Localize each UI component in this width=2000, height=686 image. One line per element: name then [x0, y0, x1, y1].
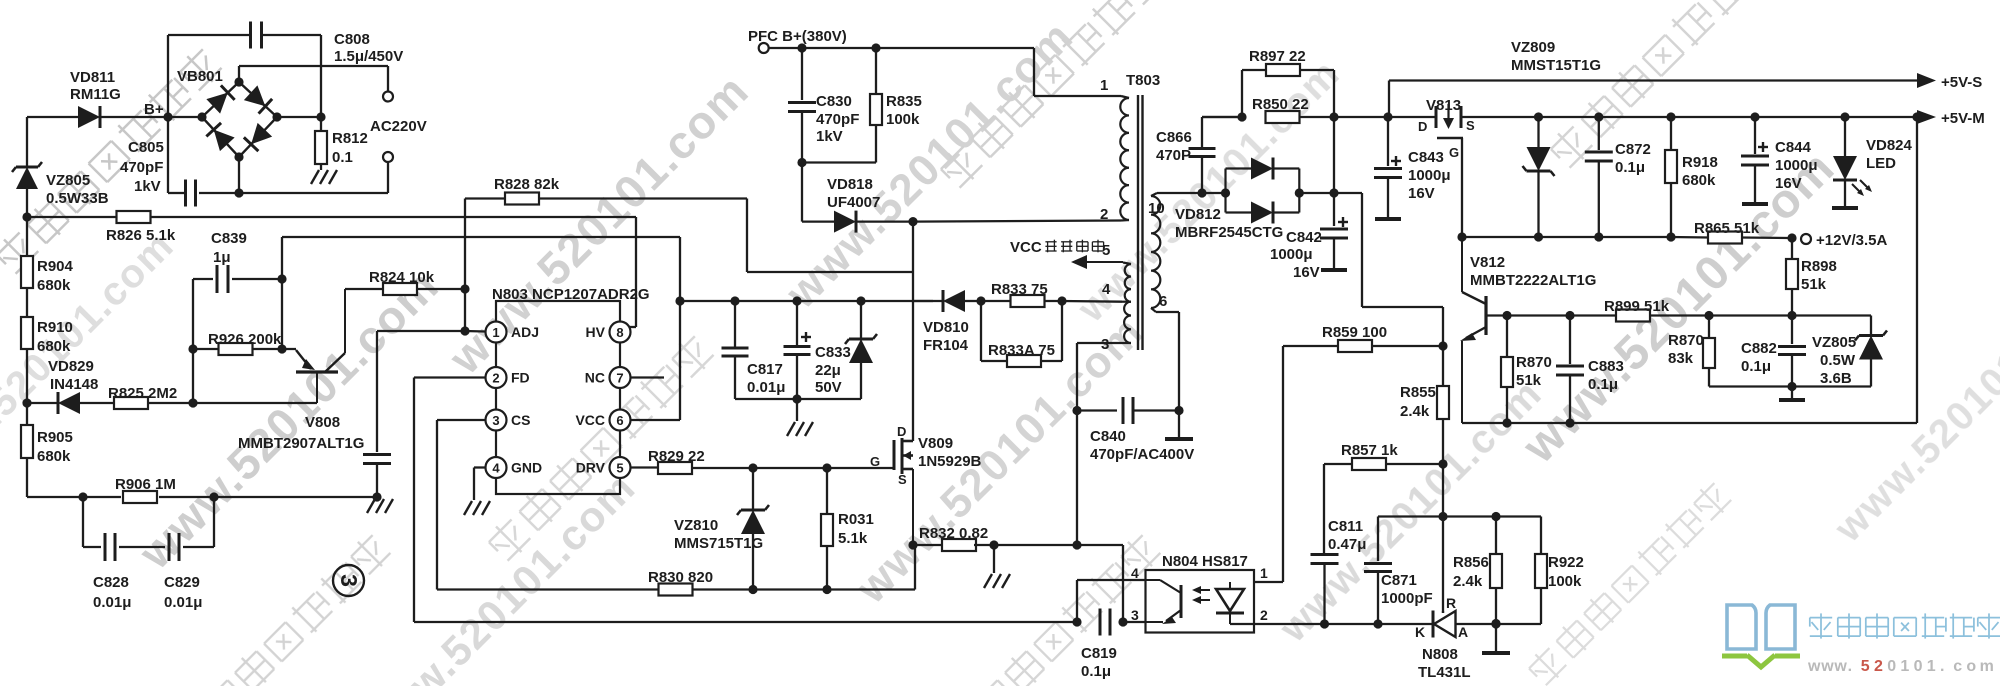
wire +5V-S riser — [1388, 81, 1390, 118]
T803 aux winding 4-3 — [1122, 302, 1131, 343]
svg-text:1: 1 — [1260, 565, 1268, 581]
wire tl431 R riser — [1442, 517, 1444, 614]
svg-text:0.01μ: 0.01μ — [164, 594, 202, 611]
opto pin3 label — [1131, 607, 1139, 623]
node R833 right — [1057, 296, 1066, 305]
label R898 — [1801, 258, 1837, 293]
svg-text:FD: FD — [511, 370, 530, 386]
svg-text:R905: R905 — [37, 429, 73, 446]
opto LED — [1216, 582, 1244, 624]
svg-text:1μ: 1μ — [213, 249, 231, 266]
resistor R830 — [437, 545, 915, 596]
resistor R831 — [821, 468, 833, 590]
pin 7 NC of N803 — [585, 367, 631, 388]
opto pin1 label — [1260, 565, 1268, 581]
terminal AC220V upper — [383, 92, 393, 102]
capacitor C882 — [1778, 316, 1806, 387]
label R905 — [37, 429, 73, 465]
bridge diode VB801-3 — [244, 123, 272, 151]
svg-text:R899 51k: R899 51k — [1604, 298, 1670, 315]
node zener top — [856, 296, 865, 305]
label C871 — [1381, 572, 1433, 607]
svg-text:MBRF2545CTG: MBRF2545CTG — [1175, 224, 1283, 241]
resistor R832 — [913, 539, 994, 551]
wire DRV stub — [631, 466, 659, 468]
arrow +5V-S — [1917, 73, 1982, 91]
svg-text:N803 NCP1207ADR2G: N803 NCP1207ADR2G — [492, 286, 650, 303]
label VZ805 right — [1812, 334, 1856, 387]
pin 5 DRV of N803 — [576, 457, 631, 478]
svg-text:C840: C840 — [1090, 428, 1126, 445]
svg-text:1kV: 1kV — [816, 128, 843, 145]
resistor R922 — [1496, 517, 1547, 625]
zener VZ805 left — [12, 162, 42, 217]
label VD811 — [70, 69, 121, 103]
svg-text:R857 1k: R857 1k — [1341, 442, 1398, 459]
label VD810 — [923, 319, 969, 354]
label C808 — [334, 31, 403, 65]
svg-text:3.6B: 3.6B — [1820, 370, 1852, 387]
capacitor C872 — [1585, 117, 1613, 237]
bridge diode VB801-4 — [206, 123, 234, 151]
opto pin4 label — [1131, 565, 1139, 581]
wire +5V-S rail — [1389, 79, 1920, 81]
capacitor C844 — [1741, 117, 1769, 203]
svg-text:3: 3 — [1131, 607, 1139, 623]
svg-text:N808: N808 — [1422, 646, 1458, 663]
node R826 tap — [22, 212, 31, 221]
wire GND pin4 — [474, 468, 486, 501]
svg-text:VD824: VD824 — [1866, 137, 1913, 154]
svg-text:PFC B+(380V): PFC B+(380V) — [748, 28, 847, 45]
T803 aux winding 5-4 — [1123, 263, 1131, 302]
wire R825 to base — [316, 402, 318, 404]
svg-text:0.5W: 0.5W — [1820, 352, 1856, 369]
wire AC2 bottom — [199, 157, 388, 198]
svg-text:C817: C817 — [747, 361, 783, 378]
svg-text:A: A — [1458, 624, 1468, 640]
capacitor C866 — [1189, 117, 1243, 193]
label C842 — [1270, 229, 1322, 281]
label C843 — [1408, 149, 1451, 202]
resistor R906 — [123, 491, 377, 503]
svg-text:680k: 680k — [37, 277, 71, 294]
node R856 bottom — [1491, 619, 1500, 628]
ground bar C844 — [1742, 202, 1768, 206]
wire pin3 entry — [1123, 621, 1146, 623]
capacitor C883 — [1556, 316, 1584, 424]
node R898 top — [1787, 233, 1796, 242]
bridge corner nodes — [197, 77, 281, 161]
node R824 right — [460, 284, 469, 293]
svg-text:470pF: 470pF — [120, 159, 163, 176]
label C883 — [1588, 358, 1624, 393]
svg-text:5.1k: 5.1k — [838, 530, 868, 547]
label C811 — [1328, 518, 1366, 553]
svg-text:3: 3 — [336, 574, 362, 587]
label V813 G — [1449, 145, 1459, 160]
node C828 riser — [78, 492, 87, 501]
svg-text:7: 7 — [616, 371, 623, 386]
wire NC stub — [631, 376, 665, 378]
zener VZ809 — [1523, 117, 1555, 237]
resistor R857 — [1324, 458, 1443, 553]
resistor R835 — [802, 48, 882, 163]
label C844 — [1775, 139, 1818, 192]
svg-text:1N5929B: 1N5929B — [918, 453, 982, 470]
diode VD812 lower — [1226, 202, 1300, 224]
bridge rectifier VB801 frame — [202, 82, 277, 157]
svg-text:3: 3 — [492, 413, 499, 428]
wire R904-R910 — [26, 288, 28, 317]
svg-text:50V: 50V — [815, 379, 842, 396]
label R856 — [1453, 554, 1489, 590]
wire mid rail — [1443, 515, 1541, 517]
label V809 G — [870, 454, 880, 469]
node C882 bottom — [1787, 382, 1796, 391]
label PFC B+ — [748, 28, 847, 45]
svg-text:C866: C866 — [1156, 129, 1192, 146]
svg-text:8: 8 — [616, 325, 623, 340]
resistor R898 — [1786, 238, 1798, 316]
wire HV riser — [629, 217, 636, 327]
svg-text:C811: C811 — [1328, 518, 1363, 535]
node C840 right — [1174, 406, 1183, 415]
label R830 — [648, 569, 713, 586]
wire C808 top loop — [168, 35, 321, 117]
svg-text:0.01μ: 0.01μ — [93, 594, 131, 611]
ground under R812 — [311, 170, 337, 184]
optocoupler N804 body — [1146, 570, 1255, 633]
node gate rail left — [1457, 232, 1466, 241]
node R835 top — [871, 43, 880, 52]
svg-text:2: 2 — [492, 371, 499, 386]
IC N803 body — [496, 301, 620, 494]
label R922 — [1548, 554, 1584, 590]
svg-text:VZ805: VZ805 — [46, 172, 90, 189]
resistor R856 — [1490, 517, 1502, 624]
svg-text:1: 1 — [492, 325, 499, 340]
svg-text:5: 5 — [616, 461, 623, 476]
label VZ810 — [674, 517, 763, 552]
resistor R824 — [345, 283, 465, 295]
label R833A — [988, 342, 1055, 359]
svg-text:R870: R870 — [1516, 354, 1552, 371]
wire FD pin2 — [414, 378, 486, 623]
svg-text:C829: C829 — [164, 574, 200, 591]
label B+ — [144, 101, 164, 118]
svg-text:C844: C844 — [1775, 139, 1812, 156]
rectifier VD812 bracket — [1226, 169, 1300, 213]
svg-text:1kV: 1kV — [134, 178, 161, 195]
svg-text:0.5W33B: 0.5W33B — [46, 190, 109, 207]
label R829 — [648, 448, 705, 465]
svg-text:1000μ: 1000μ — [1270, 246, 1313, 263]
label R897 — [1249, 48, 1306, 65]
node R831 top — [822, 463, 831, 472]
wire zener loop bottom — [1709, 385, 1871, 387]
svg-text:4: 4 — [1102, 281, 1111, 298]
capacitor ADJ filter — [363, 331, 391, 497]
svg-text:VD829: VD829 — [48, 358, 94, 375]
label R870b — [1516, 354, 1552, 389]
zener VZ810 — [737, 468, 769, 590]
label R812 — [332, 130, 368, 166]
capacitor C808 — [251, 22, 262, 49]
node R856 top — [1491, 512, 1500, 521]
svg-text:51k: 51k — [1801, 276, 1827, 293]
svg-text:MMS715T1G: MMS715T1G — [674, 535, 763, 552]
svg-text:+12V/3.5A: +12V/3.5A — [1816, 232, 1887, 249]
ground bar C882 — [1779, 387, 1805, 401]
wire C871 top — [1378, 515, 1443, 517]
label pin10 — [1148, 200, 1165, 217]
svg-text:D: D — [1418, 119, 1427, 134]
wire to T803 pin2 — [913, 221, 1121, 222]
label R835 — [886, 93, 922, 128]
node VD818 out — [908, 217, 917, 226]
node mid rail — [1438, 512, 1447, 521]
wire 5VM right drop — [1916, 117, 1918, 423]
svg-text:1000pF: 1000pF — [1381, 590, 1433, 607]
svg-text:S: S — [1466, 118, 1475, 133]
node R850 right — [1329, 112, 1338, 121]
svg-text:MMBT2907ALT1G: MMBT2907ALT1G — [238, 435, 364, 452]
terminal PFC B+ — [759, 43, 769, 53]
label R870c — [1668, 332, 1704, 367]
svg-text:1.5μ/450V: 1.5μ/450V — [334, 48, 403, 65]
svg-text:V808: V808 — [305, 414, 340, 431]
svg-text:R918: R918 — [1682, 154, 1718, 171]
label R831 — [838, 511, 874, 547]
label R832 — [919, 525, 988, 542]
svg-text:R825 2M2: R825 2M2 — [108, 385, 177, 402]
node 5VM corner — [1912, 112, 1921, 121]
label VD812 — [1175, 206, 1283, 241]
ground under pin4 — [464, 501, 490, 515]
label R904 — [37, 258, 74, 294]
transistor V812 — [1460, 237, 1486, 423]
label C805 — [120, 139, 164, 195]
svg-text:FR104: FR104 — [923, 337, 969, 354]
wire 5VM rail — [1461, 116, 1920, 118]
ground under ADJ cap — [367, 499, 393, 513]
label N803 — [492, 286, 650, 303]
svg-text:S: S — [898, 472, 907, 487]
label R857 — [1341, 442, 1398, 459]
T803 secondary winding — [1151, 193, 1160, 312]
svg-text:IN4148: IN4148 — [50, 376, 98, 393]
svg-text:.: . — [1940, 658, 1944, 675]
resistor R833A loop — [981, 301, 1062, 367]
label pin2 — [1100, 206, 1108, 223]
node R870c top — [1704, 311, 1713, 320]
svg-text:R829 22: R829 22 — [648, 448, 705, 465]
svg-text:10: 10 — [1148, 200, 1165, 217]
node C844 top — [1750, 112, 1759, 121]
svg-text:1000μ: 1000μ — [1775, 157, 1818, 174]
svg-text:R832 0.82: R832 0.82 — [919, 525, 988, 542]
node R855 top — [1438, 341, 1447, 350]
label N808 — [1418, 646, 1471, 681]
ground under R832 — [984, 545, 1010, 588]
svg-text:R826 5.1k: R826 5.1k — [106, 227, 176, 244]
svg-text:R850 22: R850 22 — [1252, 96, 1309, 113]
label R850 — [1252, 96, 1309, 113]
wire gate rail — [1462, 232, 1671, 241]
node R926 right — [277, 344, 286, 353]
ground bar VD824 — [1832, 206, 1858, 210]
capacitor C828 — [105, 533, 115, 561]
zener VZ805 right — [1855, 316, 1887, 387]
LED VD824 — [1833, 117, 1872, 207]
label R826 — [106, 227, 176, 244]
node C839 right — [277, 274, 286, 283]
capacitor C817 — [722, 301, 749, 399]
label V809 — [918, 435, 982, 470]
svg-text:R922: R922 — [1548, 554, 1584, 571]
node R832 right — [989, 540, 998, 549]
svg-text:V809: V809 — [918, 435, 953, 452]
node C829 riser — [209, 492, 218, 501]
svg-text:w: w — [1807, 658, 1821, 675]
page marker circled 3 — [333, 565, 364, 596]
node C872 top — [1594, 112, 1603, 121]
wire pin3 out — [1077, 343, 1122, 545]
wire pin6 out — [1156, 312, 1179, 437]
resistor R918 — [1665, 117, 1677, 237]
node C882 top — [1787, 311, 1796, 320]
svg-text:R031: R031 — [838, 511, 874, 528]
wire CS pin3 — [437, 420, 486, 590]
svg-text:R859 100: R859 100 — [1322, 324, 1387, 341]
svg-text:R865 51k: R865 51k — [1694, 220, 1760, 237]
label C830 — [816, 93, 859, 145]
svg-text:C819: C819 — [1081, 645, 1117, 662]
node B+ — [163, 112, 172, 121]
svg-text:C871: C871 — [1381, 572, 1417, 589]
svg-text:16V: 16V — [1775, 175, 1802, 192]
svg-text:0.1μ: 0.1μ — [1588, 376, 1618, 393]
svg-text:0.1μ: 0.1μ — [1615, 159, 1645, 176]
node VCC rail tap — [675, 296, 684, 305]
capacitor C839 — [193, 265, 282, 293]
terminal AC220V lower — [383, 152, 393, 162]
svg-text:6: 6 — [1159, 293, 1167, 310]
svg-text:R855: R855 — [1400, 384, 1436, 401]
svg-text:V812: V812 — [1470, 254, 1505, 271]
label VZ805 left — [46, 172, 109, 207]
label V813 S — [1466, 118, 1475, 133]
wire left column upper — [26, 217, 28, 256]
label VD818 — [827, 176, 880, 211]
svg-text:83k: 83k — [1668, 350, 1694, 367]
label C872 — [1615, 141, 1651, 176]
label VZ809 — [1511, 39, 1601, 74]
wire opto pin2 — [1230, 623, 1325, 625]
svg-text:NC: NC — [585, 370, 605, 386]
svg-text:R833 75: R833 75 — [991, 281, 1048, 298]
svg-text:T803: T803 — [1126, 72, 1160, 89]
capacitor C805 — [168, 117, 196, 207]
wire C839 right riser — [281, 237, 283, 349]
diode VD811 — [27, 106, 168, 128]
opto phototransistor — [1146, 580, 1182, 624]
node VZ810 top — [748, 463, 757, 472]
wire C828 loop — [83, 497, 214, 547]
resistor R855 — [1437, 346, 1449, 464]
svg-text:680k: 680k — [1682, 172, 1716, 189]
pin 3 CS of N803 — [486, 410, 531, 431]
svg-text:0: 0 — [1914, 658, 1923, 675]
label R859 — [1322, 324, 1387, 341]
wire drain drop — [912, 222, 914, 441]
node C811 bottom — [1320, 619, 1329, 628]
wire left drop to VZ805 — [26, 117, 28, 166]
label C840 — [1090, 428, 1194, 463]
wire rail to V813 — [1334, 116, 1436, 118]
svg-text:470P: 470P — [1156, 147, 1191, 164]
svg-text:1000μ: 1000μ — [1408, 167, 1451, 184]
label V809 D — [897, 424, 906, 439]
svg-text:3: 3 — [1101, 336, 1109, 353]
svg-text:C830: C830 — [816, 93, 852, 110]
svg-text:16V: 16V — [1293, 264, 1320, 281]
node C871 bottom — [1373, 619, 1382, 628]
node C819 right — [1118, 617, 1127, 626]
svg-text:VB801: VB801 — [177, 68, 223, 85]
wire FD long line — [414, 621, 1077, 623]
svg-text:C842: C842 — [1286, 229, 1322, 246]
node C840 left — [1072, 406, 1081, 415]
ground bar C842 — [1321, 268, 1347, 272]
svg-text:2: 2 — [1100, 206, 1108, 223]
node R850 left — [1237, 112, 1246, 121]
svg-text:0.01μ: 0.01μ — [747, 379, 785, 396]
svg-text:R833A 75: R833A 75 — [988, 342, 1055, 359]
label pin4 — [1102, 281, 1111, 298]
svg-text:LED: LED — [1866, 155, 1896, 172]
label V812 — [1470, 254, 1596, 289]
label C882 — [1741, 340, 1777, 375]
svg-text:R904: R904 — [37, 258, 74, 275]
pin 2 FD of N803 — [486, 367, 530, 388]
svg-text:C805: C805 — [128, 139, 164, 156]
resistor R850 — [1266, 111, 1335, 123]
svg-text:VD818: VD818 — [827, 176, 873, 193]
resistor R905 — [21, 425, 33, 458]
svg-text:0.47μ: 0.47μ — [1328, 536, 1366, 553]
wire R855 to rail — [1442, 464, 1444, 517]
wire emitter rail — [1462, 418, 1917, 427]
wire fb line — [1325, 623, 1434, 625]
label V808 — [238, 414, 364, 452]
node R830 taps — [748, 585, 831, 594]
label AC220V — [370, 118, 427, 135]
node C866 bottom — [1197, 188, 1206, 197]
svg-text:2: 2 — [1260, 607, 1268, 623]
resistor R825 — [114, 397, 317, 409]
resistor R826 — [27, 211, 636, 223]
bridge diode VB801-1 — [206, 85, 234, 113]
wire base rail — [1486, 311, 1871, 320]
svg-text:VD810: VD810 — [923, 319, 969, 336]
label pin1 — [1100, 77, 1108, 94]
node C830 top — [797, 43, 806, 52]
T803 core — [1138, 95, 1143, 350]
svg-text:R897 22: R897 22 — [1249, 48, 1306, 65]
capacitor C840 — [1077, 397, 1179, 424]
